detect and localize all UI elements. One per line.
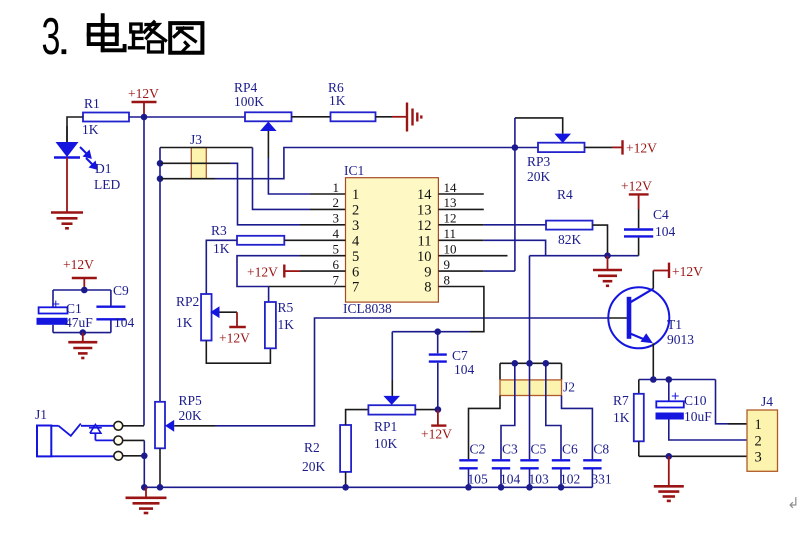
wire long left vertical <box>143 117 145 426</box>
title char lu <box>131 24 142 32</box>
svg-text:2: 2 <box>755 434 762 450</box>
svg-text:2: 2 <box>352 203 359 219</box>
J1 sleeve line <box>51 455 114 457</box>
node A junction R1/+12V <box>141 114 148 121</box>
power +12V RP1 <box>437 410 439 426</box>
svg-text:1: 1 <box>352 187 359 203</box>
wire ground stem J4 <box>668 456 670 486</box>
svg-text:R4: R4 <box>557 187 573 202</box>
wire to pin6 <box>300 270 346 272</box>
svg-text:+12V: +12V <box>63 257 94 272</box>
node R2 rail <box>342 484 349 491</box>
wire R3 right to pin4 <box>284 239 345 241</box>
T1 base bar <box>627 297 632 339</box>
svg-text:C7: C7 <box>452 348 468 363</box>
J1 tip contact <box>51 425 58 427</box>
potentiometer RP3 <box>538 143 585 152</box>
connector J3 <box>191 148 206 179</box>
connector J4 <box>747 410 778 471</box>
svg-text:C4: C4 <box>653 207 669 222</box>
svg-text:10: 10 <box>417 249 432 265</box>
svg-text:8: 8 <box>444 272 451 287</box>
node rail B ground <box>604 252 611 259</box>
T1 collector <box>630 289 653 303</box>
svg-text:102: 102 <box>560 472 580 487</box>
T1 emitter <box>630 334 647 341</box>
wire pin13 stub <box>438 208 483 210</box>
svg-text:R7: R7 <box>613 393 629 408</box>
title char dian <box>89 25 117 44</box>
svg-text:C10: C10 <box>684 393 707 408</box>
svg-text:4: 4 <box>333 226 340 241</box>
wire RP1 right <box>415 409 438 411</box>
svg-text:104: 104 <box>500 472 521 487</box>
potentiometer RP1 <box>368 405 415 414</box>
svg-text:R5: R5 <box>278 300 294 315</box>
svg-text:104: 104 <box>114 315 135 330</box>
svg-text:8: 8 <box>424 280 431 296</box>
node ground J4 <box>666 453 673 460</box>
svg-text:J2: J2 <box>563 380 575 395</box>
J1 pad 2 <box>114 436 123 445</box>
J1 ring contact <box>90 425 101 434</box>
wire J1 to bottom rail <box>143 456 145 488</box>
ground bottom left <box>126 496 167 499</box>
wire RP4 to R6 <box>292 116 331 118</box>
svg-text:1: 1 <box>333 180 340 195</box>
svg-text:9: 9 <box>424 264 431 280</box>
node emitter rail 2 <box>666 376 673 383</box>
svg-text:5: 5 <box>352 249 359 265</box>
wire R2 bottom <box>345 472 347 487</box>
node cap rail <box>558 484 565 491</box>
node emitter rail 1 <box>650 376 657 383</box>
wire pin14 stub <box>438 193 483 195</box>
svg-text:9: 9 <box>444 257 451 272</box>
capacitor C5 <box>520 459 538 461</box>
capacitor C7 <box>437 332 439 354</box>
svg-text:1K: 1K <box>278 317 295 332</box>
svg-text:J3: J3 <box>190 132 202 147</box>
svg-text:RP2: RP2 <box>176 294 199 309</box>
node RP3 left <box>512 144 519 151</box>
wire rail B <box>530 255 639 257</box>
svg-text:104: 104 <box>454 362 475 377</box>
wire J3 to RP5 vertical <box>159 148 161 402</box>
node C7 top <box>434 328 441 335</box>
svg-text:13: 13 <box>417 203 432 219</box>
svg-text:6: 6 <box>333 257 340 272</box>
power +12V RP2 <box>229 326 246 328</box>
wire node B to R5 top <box>268 287 270 303</box>
svg-text:9013: 9013 <box>667 332 694 347</box>
wire pin5 to node B <box>300 255 346 257</box>
wire pin12 to R4 <box>438 224 483 226</box>
wire pin9 to RP3 <box>438 270 483 272</box>
resistor R5 <box>265 302 276 348</box>
capacitor C8 <box>583 459 601 461</box>
svg-text:J4: J4 <box>761 394 773 409</box>
power +12V RP3 <box>621 140 623 154</box>
wire top main <box>129 116 245 118</box>
wire R4 right down <box>593 225 608 256</box>
wire to ground C1 <box>82 333 84 342</box>
svg-text:14: 14 <box>417 187 432 203</box>
resistor R1 <box>83 113 129 122</box>
wire J2 to C5 <box>529 363 531 459</box>
capacitor C2 <box>459 459 477 461</box>
wire J1 tip <box>123 425 144 427</box>
node C1 top <box>81 287 88 294</box>
svg-text:C8: C8 <box>593 442 609 457</box>
wire J2 to C8 <box>562 396 593 460</box>
potentiometer RP4 <box>245 112 292 121</box>
resistor R3 <box>237 236 284 245</box>
svg-text:ICL8038: ICL8038 <box>343 301 392 316</box>
resistor R2 <box>340 425 351 472</box>
capacitor C4 <box>638 209 640 228</box>
wire J3 row2 to pin3 <box>160 162 230 164</box>
ground under J4 <box>654 485 684 488</box>
LED arrows <box>80 147 97 169</box>
svg-text:+12V: +12V <box>247 265 278 280</box>
svg-text:6: 6 <box>352 264 359 280</box>
node cap rail <box>498 484 505 491</box>
transistor T1 circle <box>608 287 669 348</box>
svg-text:1K: 1K <box>213 241 230 256</box>
svg-text:13: 13 <box>444 195 457 210</box>
diode D1 LED <box>56 142 79 157</box>
svg-text:+: + <box>671 389 680 405</box>
svg-text:104: 104 <box>655 224 676 239</box>
wire C1 C9 bottom rail <box>53 332 111 334</box>
wire RP2 wiper to +12V <box>220 311 238 313</box>
svg-text:11: 11 <box>418 234 432 250</box>
svg-text:+: + <box>52 297 61 313</box>
potentiometer RP5 <box>155 402 165 449</box>
svg-text:82K: 82K <box>558 232 582 247</box>
wire J2 to C2 <box>469 396 501 460</box>
node J2 pin a <box>512 360 519 367</box>
svg-text:100K: 100K <box>234 94 264 109</box>
svg-text:11: 11 <box>444 226 457 241</box>
svg-text:+12V: +12V <box>626 141 657 156</box>
svg-text:20K: 20K <box>302 459 326 474</box>
wire J2 to C3 <box>501 363 515 459</box>
ground sideways right of R6 <box>406 103 408 132</box>
svg-text:3: 3 <box>755 450 762 466</box>
node J2 pin c <box>543 360 550 367</box>
svg-text:105: 105 <box>468 472 489 487</box>
svg-text:1: 1 <box>755 417 762 433</box>
svg-text:1K: 1K <box>176 315 193 330</box>
svg-text:RP1: RP1 <box>374 419 397 434</box>
node RP1 +12V <box>435 406 442 413</box>
wire R2 top to RP1 <box>346 410 369 425</box>
svg-text:J1: J1 <box>35 407 47 422</box>
svg-text:T1: T1 <box>667 317 682 332</box>
wire R6 to ground <box>376 116 393 118</box>
svg-text:R2: R2 <box>304 440 320 455</box>
op-amp IC1 body <box>346 178 439 302</box>
wire emitter rail <box>639 379 716 381</box>
capacitor C9 <box>110 290 112 306</box>
wire rail B to J2 <box>529 256 531 364</box>
wire RP5 wiper to T1 base <box>174 425 215 427</box>
svg-text:20K: 20K <box>179 408 203 423</box>
svg-text:47uF: 47uF <box>65 315 93 330</box>
J1 pad 3 <box>114 451 123 460</box>
svg-text:RP3: RP3 <box>527 154 551 169</box>
svg-text:3: 3 <box>333 211 340 226</box>
resistor R7 <box>638 380 640 394</box>
svg-text:LED: LED <box>94 177 120 192</box>
svg-text:7: 7 <box>352 280 359 296</box>
wire R3 left to RP2 top <box>206 240 237 294</box>
svg-text:C3: C3 <box>502 442 518 457</box>
capacitor C1 <box>52 290 54 307</box>
ground under LED <box>51 211 83 214</box>
svg-text:14: 14 <box>444 180 458 195</box>
svg-text:+12V: +12V <box>421 427 452 442</box>
svg-text:10K: 10K <box>374 436 398 451</box>
wire ground stem R4 <box>607 256 609 270</box>
potentiometer RP2 <box>201 294 212 341</box>
node J2 pin b <box>526 360 533 367</box>
node cap rail <box>465 484 472 491</box>
svg-text:1K: 1K <box>82 122 99 137</box>
wire pin8 path <box>438 287 484 332</box>
svg-text:IC1: IC1 <box>344 163 364 178</box>
svg-text:12: 12 <box>444 211 457 226</box>
capacitor C3 <box>492 459 510 461</box>
resistor R6 <box>331 112 376 121</box>
svg-text:20K: 20K <box>527 169 551 184</box>
wire pin7 stub <box>269 286 346 288</box>
capacitor C6 <box>552 459 570 461</box>
wire to J4 pin1 <box>716 380 748 424</box>
wire bottom rail <box>144 486 592 488</box>
wire J2 to C6 <box>546 363 561 459</box>
wire RP1 wiper up <box>391 332 393 380</box>
svg-text:R1: R1 <box>84 96 100 111</box>
wire ground stem bottom left <box>145 487 147 497</box>
wire C1 C9 top rail <box>53 289 111 291</box>
svg-text:RP5: RP5 <box>179 393 203 408</box>
ground under C1 <box>68 341 97 344</box>
node cap rail <box>526 484 533 491</box>
wire R1 left to LED <box>67 117 83 142</box>
svg-text:RP4: RP4 <box>234 80 258 95</box>
svg-text:3: 3 <box>42 9 61 66</box>
svg-text:↲: ↲ <box>787 496 800 512</box>
svg-text:C1: C1 <box>66 301 82 316</box>
resistor R4 <box>546 221 593 230</box>
svg-text:C9: C9 <box>113 283 129 298</box>
wire RP3 wiper loop <box>515 118 563 134</box>
wire J3 row1 to pin2 <box>160 147 253 149</box>
svg-text:3: 3 <box>352 218 359 234</box>
svg-text:7: 7 <box>333 272 340 287</box>
svg-text:1K: 1K <box>329 93 346 108</box>
svg-text:2: 2 <box>333 195 340 210</box>
wire RP3 right to +12V <box>585 146 613 148</box>
svg-text:10uF: 10uF <box>684 409 712 424</box>
svg-text:1K: 1K <box>613 410 630 425</box>
svg-text:4: 4 <box>352 234 360 250</box>
J1 pad 1 <box>114 421 123 430</box>
capacitor C10 <box>668 380 670 402</box>
wire J3 row3 to RP3 <box>160 178 215 180</box>
svg-text:103: 103 <box>529 472 550 487</box>
connector J2 <box>500 362 562 364</box>
title char tu <box>170 23 202 53</box>
power +12V T1 <box>653 270 669 272</box>
svg-text:+12V: +12V <box>219 331 250 346</box>
wire J1 sleeve <box>123 455 145 457</box>
svg-text:R3: R3 <box>211 223 227 238</box>
svg-text:5: 5 <box>333 242 340 257</box>
node J3 row3 <box>157 175 164 182</box>
svg-text:C5: C5 <box>531 442 547 457</box>
wire pin11 to rail <box>438 239 483 241</box>
svg-text:C6: C6 <box>562 442 578 457</box>
node RP5 ground <box>157 484 164 491</box>
wire J1 ring <box>123 439 145 441</box>
svg-text:10: 10 <box>444 242 457 257</box>
wire RP5 bottom <box>159 448 161 487</box>
svg-text:12: 12 <box>417 218 432 234</box>
ground under R4 <box>593 269 622 272</box>
wire LED to ground <box>66 158 68 213</box>
node C1 bottom <box>80 329 87 336</box>
svg-text:+12V: +12V <box>672 264 703 279</box>
node bottom rail left <box>141 484 148 491</box>
wire bottom right rail to J4 pin3 <box>639 455 747 457</box>
svg-text:+12V: +12V <box>621 179 652 194</box>
wire pin10 stub <box>438 255 507 257</box>
wire RP4 wiper to pin1 <box>267 131 269 158</box>
svg-text:C2: C2 <box>470 442 486 457</box>
svg-text:D1: D1 <box>95 161 112 176</box>
node J1 sleeve junction <box>141 453 148 460</box>
node J3 row2 <box>157 160 164 167</box>
svg-text:+12V: +12V <box>128 86 159 101</box>
svg-text:331: 331 <box>591 472 611 487</box>
wire RP2 bottom to R5 bottom <box>206 341 270 364</box>
